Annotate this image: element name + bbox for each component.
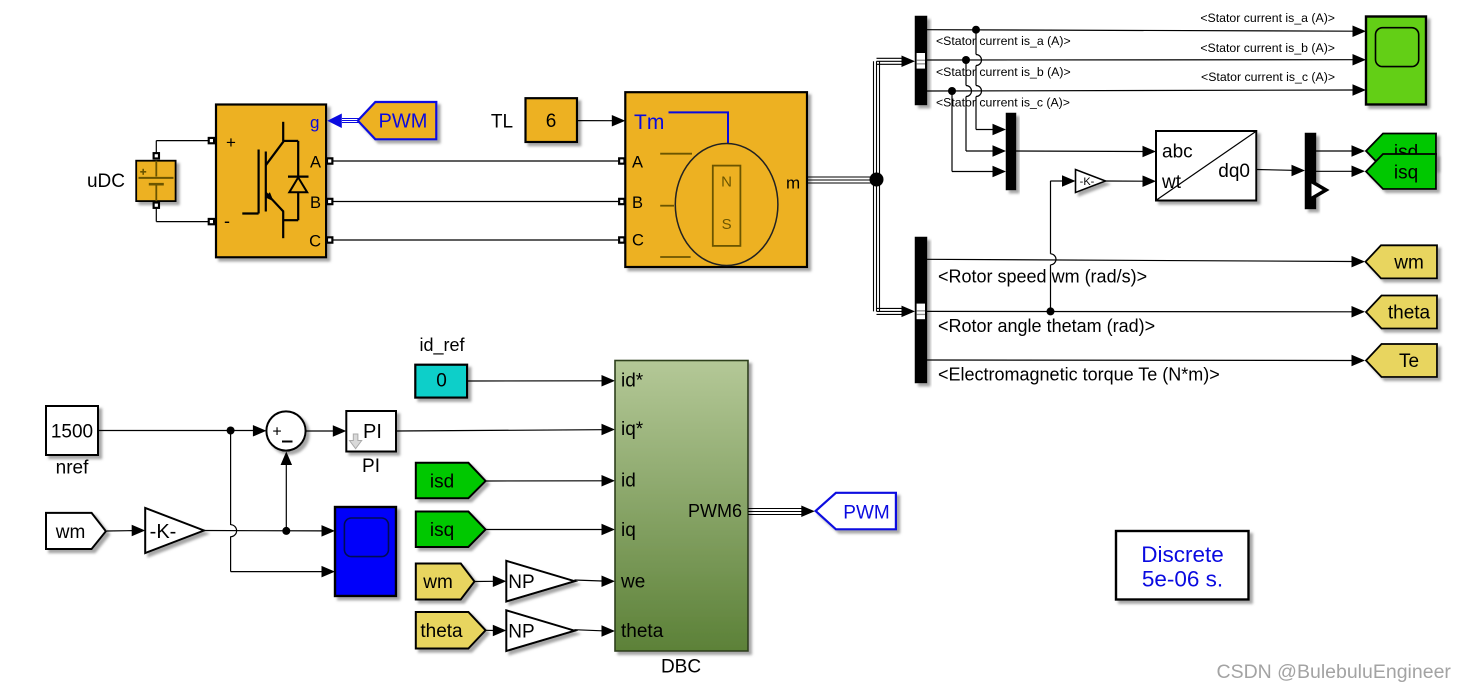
svg-text:+: + — [226, 133, 236, 152]
svg-text:isd: isd — [430, 472, 454, 493]
svg-text:C: C — [632, 232, 644, 250]
svg-text:-: - — [224, 211, 230, 231]
svg-text:<Rotor angle thetam (rad)>: <Rotor angle thetam (rad)> — [938, 316, 1155, 336]
svg-text:0: 0 — [436, 371, 447, 392]
svg-text:TL: TL — [491, 112, 513, 133]
svg-text:C: C — [309, 233, 321, 251]
svg-text:B: B — [310, 194, 321, 212]
svg-text:dq0: dq0 — [1218, 161, 1250, 182]
svg-text:B: B — [632, 194, 643, 212]
svg-text:N: N — [721, 174, 732, 191]
svg-text:PI: PI — [363, 421, 382, 443]
svg-text:A: A — [310, 154, 321, 172]
svg-text:<Stator current is_c (A)>: <Stator current is_c (A)> — [936, 96, 1070, 110]
svg-text:isq: isq — [1394, 163, 1418, 184]
svg-text:PI: PI — [362, 456, 380, 477]
svg-text:theta: theta — [1388, 303, 1431, 324]
svg-text:wm: wm — [1393, 253, 1424, 274]
svg-text:S: S — [722, 216, 732, 233]
svg-text:PWM: PWM — [379, 110, 428, 132]
svg-text:1500: 1500 — [51, 422, 93, 443]
svg-text:-K-: -K- — [150, 521, 177, 543]
svg-text:PWM: PWM — [843, 503, 889, 524]
svg-text:isq: isq — [430, 520, 454, 541]
svg-text:Te: Te — [1399, 351, 1419, 372]
svg-text:5e-06 s.: 5e-06 s. — [1142, 567, 1223, 592]
svg-text:NP: NP — [508, 572, 534, 593]
svg-text:+: + — [272, 424, 281, 441]
svg-text:PWM6: PWM6 — [688, 501, 742, 521]
svg-text:we: we — [620, 572, 645, 593]
svg-text:theta: theta — [420, 621, 463, 642]
svg-text:iq: iq — [621, 520, 636, 541]
svg-text:id*: id* — [621, 371, 644, 392]
svg-text:uDC: uDC — [87, 171, 125, 192]
svg-text:wt: wt — [1161, 172, 1182, 193]
svg-text:id: id — [621, 471, 636, 492]
svg-text:nref: nref — [56, 458, 89, 479]
svg-text:theta: theta — [621, 621, 664, 642]
svg-text:<Stator current is_c (A)>: <Stator current is_c (A)> — [1201, 70, 1335, 84]
svg-text:CSDN @BulebuluEngineer: CSDN @BulebuluEngineer — [1217, 661, 1452, 683]
svg-text:abc: abc — [1162, 142, 1193, 163]
svg-text:g: g — [310, 113, 319, 132]
svg-text:<Stator current is_b (A)>: <Stator current is_b (A)> — [936, 65, 1071, 79]
svg-text:A: A — [632, 154, 643, 172]
svg-text:id_ref: id_ref — [419, 335, 465, 356]
svg-text:6: 6 — [546, 111, 557, 132]
svg-text:iq*: iq* — [621, 419, 644, 440]
svg-text:NP: NP — [508, 622, 534, 643]
svg-text:<Stator current is_b (A)>: <Stator current is_b (A)> — [1200, 41, 1335, 55]
svg-text:wm: wm — [55, 522, 86, 543]
svg-text:wm: wm — [422, 572, 453, 593]
svg-text:<Rotor speed wm (rad/s)>: <Rotor speed wm (rad/s)> — [938, 267, 1147, 287]
svg-text:m: m — [786, 174, 800, 193]
svg-text:Discrete: Discrete — [1141, 542, 1224, 567]
svg-text:Tm: Tm — [634, 111, 664, 134]
svg-text:<Stator current is_a (A)>: <Stator current is_a (A)> — [1200, 11, 1335, 25]
svg-text:-K-: -K- — [1080, 176, 1095, 188]
svg-text:<Electromagnetic torque Te (N*: <Electromagnetic torque Te (N*m)> — [938, 365, 1220, 385]
svg-text:<Stator current is_a (A)>: <Stator current is_a (A)> — [936, 34, 1071, 48]
svg-text:DBC: DBC — [661, 657, 701, 678]
